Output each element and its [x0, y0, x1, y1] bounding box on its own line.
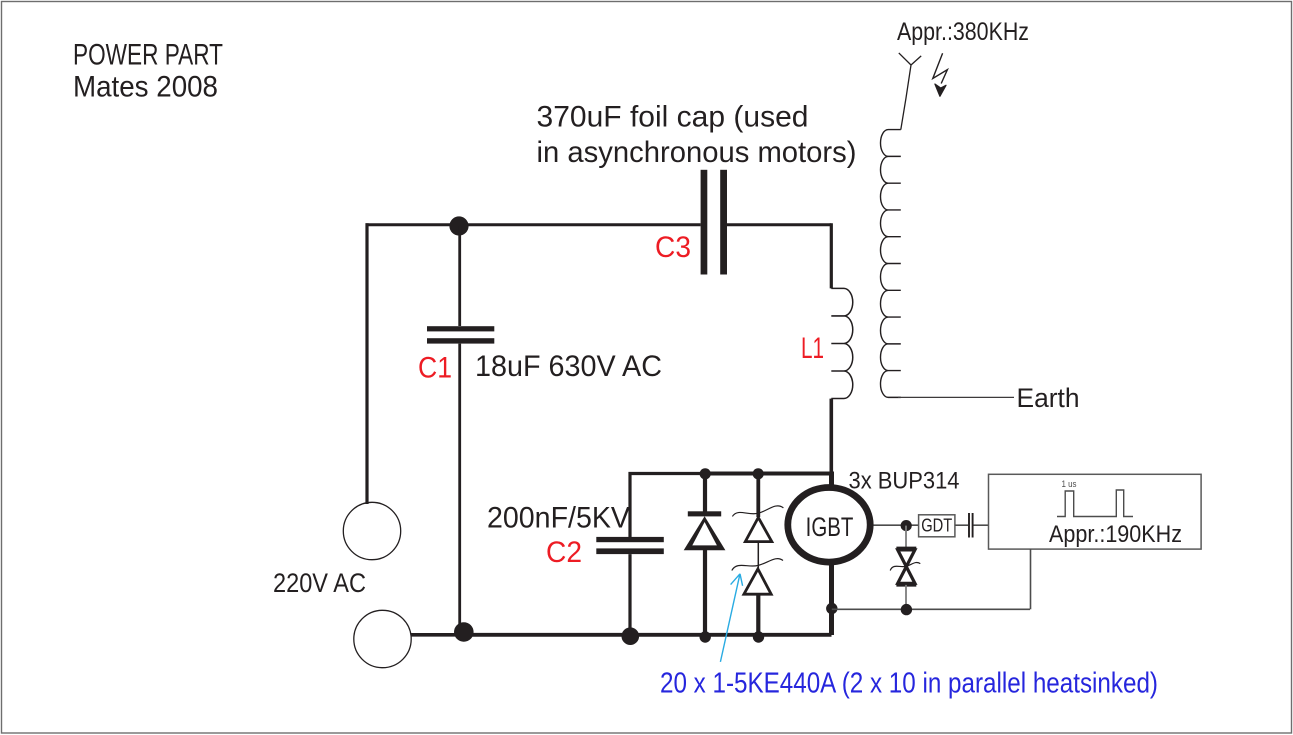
svg-text:C2: C2: [546, 536, 582, 569]
driver box: [989, 474, 1202, 549]
svg-text:220V AC: 220V AC: [273, 568, 366, 598]
svg-text:GDT: GDT: [921, 516, 952, 536]
wire GDT to coupling cap: [955, 524, 968, 526]
IGBT top lead: [829, 472, 834, 487]
wire C3 right to corner: [727, 223, 831, 226]
capacitor C3 plates: [701, 170, 708, 275]
AC source circle bottom: [354, 610, 411, 667]
node dot return at bowtie: [901, 604, 912, 615]
svg-text:C3: C3: [655, 231, 691, 264]
node junction dot at C1 top: [449, 216, 468, 235]
secondary coil of tesla transformer: [881, 130, 901, 398]
node dot C2 bottom junction: [622, 627, 640, 645]
antenna breakout at secondary top: [899, 53, 921, 130]
svg-text:3x BUP314: 3x BUP314: [849, 468, 960, 495]
wire between TVS 1 and TVS 2: [757, 542, 759, 569]
pulse waveform: [1057, 490, 1133, 517]
svg-text:IGBT: IGBT: [806, 512, 854, 542]
diode D1 cathode bar: [688, 511, 721, 516]
TVS chain bottom lead: [756, 594, 760, 634]
wire bottom rail: [461, 633, 832, 637]
wire C2 top lead and corner to diode rail: [630, 474, 706, 538]
coupling capacitor plates: [969, 513, 973, 538]
node dot bottom-left junction: [454, 622, 474, 642]
wire coupling cap to driver box: [974, 524, 989, 526]
svg-text:370uF foil cap (used: 370uF foil cap (used: [537, 100, 809, 133]
wire driver box bottom drop: [1030, 549, 1032, 609]
svg-text:POWER PART: POWER PART: [73, 39, 223, 72]
node dot bottom rail below TVS: [753, 631, 764, 642]
TVS bidirectional bottom lead: [905, 585, 907, 610]
svg-text:20 x 1-5KE440A (2 x 10 in para: 20 x 1-5KE440A (2 x 10 in parallel heats…: [660, 668, 1158, 700]
svg-text:Appr.:380KHz: Appr.:380KHz: [897, 18, 1029, 46]
node dot rail above diode: [700, 468, 711, 479]
svg-text:Earth: Earth: [1017, 383, 1080, 413]
wire L1 bottom down to IGBT collector: [829, 399, 833, 484]
wire corner down to L1: [830, 223, 833, 288]
node dot bottom rail below diode: [700, 631, 711, 642]
spark lightning bolt: [933, 53, 948, 83]
TVS diode 1 (outline triangle): [745, 518, 772, 542]
node dot gate junction: [901, 520, 912, 531]
wire top power rail: [704, 472, 833, 476]
GDT box: [919, 515, 955, 537]
wire IGBT gate to GDT: [874, 524, 920, 526]
transistor IGBT circle: [788, 488, 870, 563]
capacitor C2 plates: [596, 537, 664, 542]
capacitor C1 plates: [427, 326, 494, 331]
diode D1 body (thick outline triangle): [684, 516, 726, 550]
AC source circle top: [343, 502, 400, 559]
TVS bidirectional top lead: [905, 526, 907, 549]
wire C2 bottom lead: [628, 554, 631, 634]
svg-text:Appr.:190KHz: Appr.:190KHz: [1049, 521, 1182, 548]
callout arrow (cyan) to TVS diodes: [720, 574, 742, 662]
TVS diode 2 (outline triangle): [744, 569, 771, 594]
svg-text:L1: L1: [801, 332, 824, 365]
IGBT bottom lead: [829, 565, 834, 635]
svg-text:200nF/5KV: 200nF/5KV: [487, 502, 630, 535]
svg-text:C1: C1: [418, 351, 452, 384]
svg-text:18uF 630V AC: 18uF 630V AC: [475, 350, 662, 383]
diode D1 top lead: [703, 474, 707, 513]
svg-text:in asynchronous motors): in asynchronous motors): [537, 136, 857, 169]
node dot rail above TVS chain: [753, 468, 764, 479]
inductor L1 primary coil: [831, 288, 852, 398]
wire left vertical drop to AC source: [365, 223, 368, 504]
wire C1 top lead: [458, 226, 461, 326]
squiggle over bowtie TVS: [890, 562, 920, 570]
squiggle over TVS 1: [732, 506, 783, 517]
earth wire from secondary bottom: [898, 396, 1014, 398]
svg-text:Mates 2008: Mates 2008: [73, 71, 218, 104]
wire feedback return: [832, 608, 1030, 610]
squiggle over TVS 2: [732, 559, 783, 571]
TVS chain top lead: [756, 474, 760, 518]
diode D1 anode lead: [703, 550, 707, 634]
node dot IGBT emitter junction: [826, 603, 837, 614]
wire AC bottom to rail: [411, 633, 463, 637]
svg-text:1 us: 1 us: [1062, 479, 1077, 489]
TVS bidirectional (bowtie): [896, 548, 916, 585]
wire top-left horizontal (node top rail to C3): [366, 223, 701, 226]
wire C1 bottom lead: [458, 344, 461, 632]
